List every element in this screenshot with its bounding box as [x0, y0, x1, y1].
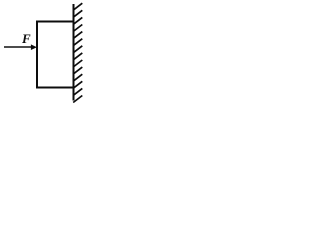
force arrow F [4, 44, 37, 50]
wall hatching [73, 3, 82, 102]
wall [73, 4, 75, 101]
block [37, 22, 74, 88]
svg-text:F: F [21, 31, 31, 46]
